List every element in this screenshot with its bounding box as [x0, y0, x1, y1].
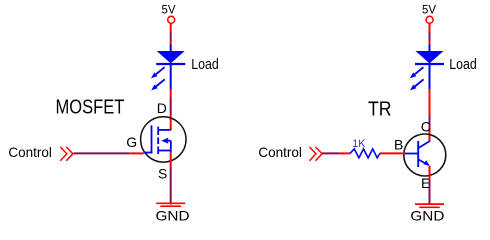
wire: net Control to gate (left, maroon)	[74, 152, 130, 154]
node: Control input chevron (right)	[310, 147, 323, 161]
LED D2 Load (right): triangle	[416, 51, 444, 63]
MOSFET Q1: channel segment middle	[157, 137, 159, 144]
MOSFET Q1: drain pin (red)	[170, 115, 172, 131]
svg-text:5V: 5V	[422, 2, 436, 16]
MOSFET Q1: channel segment bottom	[157, 146, 159, 154]
LED D2 Load (right): cathode bar	[415, 63, 444, 65]
MOSFET Q1: gate bar	[151, 125, 153, 153]
transistor Q2: emitter lead diagonal with arrow	[419, 160, 431, 167]
wire: net LED to drain (left, maroon)	[170, 98, 172, 115]
svg-text:GND: GND	[156, 207, 190, 222]
ground (left): bar 2	[161, 205, 181, 207]
LED D2 Load (right): emission arrow 2	[410, 79, 424, 90]
MOSFET Q1: source/body vertical	[170, 141, 172, 153]
svg-text:D: D	[157, 100, 167, 116]
svg-text:Load: Load	[449, 56, 477, 73]
transistor Q2: base bar	[417, 141, 419, 167]
transistor Q2: collector lead diagonal	[419, 141, 430, 148]
svg-text:MOSFET: MOSFET	[56, 96, 125, 118]
resistor R1: left pin (red)	[340, 152, 351, 154]
svg-text:TR: TR	[368, 99, 392, 121]
MOSFET Q1: body lead with arrow	[161, 138, 171, 144]
wire: net 5V to LED anode (left, maroon)	[170, 33, 172, 42]
svg-text:5V: 5V	[162, 2, 176, 16]
svg-text:1K: 1K	[352, 138, 366, 150]
svg-text:Control: Control	[8, 144, 52, 160]
LED D2 Load (right): emission arrow 1	[410, 67, 424, 78]
svg-text:Control: Control	[258, 144, 302, 160]
LED D1 Load (left): triangle	[157, 51, 185, 63]
power 5V (right) terminal circle	[426, 16, 433, 23]
MOSFET Q1: gate lead	[144, 152, 153, 154]
LED D1 Load (left): cathode bar	[156, 63, 185, 65]
wire: net Control to resistor (right, maroon)	[322, 152, 339, 154]
transistor Q2: base lead	[405, 153, 419, 155]
LED D1 Load (left): emission arrow 1	[151, 67, 165, 78]
MOSFET Q1: body circle	[141, 117, 186, 162]
MOSFET Q1: source pin (red)	[170, 153, 172, 167]
ground (right): bar 1	[415, 203, 444, 205]
ground (left): bar 1	[156, 202, 185, 204]
svg-text:C: C	[421, 118, 431, 134]
LED D2 Load (right): cathode lead	[429, 64, 431, 89]
wire: LED cathode pin (right, red)	[429, 89, 431, 115]
wire: LED anode pin (left, red)	[170, 41, 172, 45]
transistor Q2: collector pin (red)	[429, 130, 431, 141]
LED D1 Load (left): anode lead	[170, 45, 172, 53]
svg-text:B: B	[394, 136, 403, 152]
power 5V (left) terminal circle	[168, 16, 175, 23]
MOSFET Q1: channel segment top	[157, 127, 159, 135]
MOSFET Q1: gate pin (red)	[130, 152, 144, 154]
wire: net LED to collector (right, maroon)	[429, 115, 431, 130]
wire: net 5V to LED anode (right, maroon)	[429, 33, 431, 42]
wire: net source to GND (left, maroon)	[170, 167, 172, 205]
wire: LED cathode pin (left, red)	[170, 89, 172, 98]
transistor Q2: body circle	[404, 134, 446, 176]
transistor Q2: emitter pin (red)	[429, 166, 431, 180]
LED D2 Load (right): anode lead	[429, 45, 431, 53]
wire: LED anode pin (right, red)	[429, 41, 431, 45]
svg-text:Load: Load	[191, 56, 219, 73]
resistor R1 1K: zigzag body	[350, 149, 380, 158]
wire: net emitter to GND (right, maroon)	[429, 180, 431, 205]
MOSFET Q1: source lead	[158, 150, 171, 152]
LED D1 Load (left): emission arrow 2	[151, 79, 165, 90]
wire: 5V pin red stem (left)	[170, 23, 172, 32]
wire: 5V pin red stem (right)	[429, 23, 431, 32]
svg-text:GND: GND	[410, 208, 444, 223]
svg-text:S: S	[158, 166, 167, 182]
svg-text:G: G	[126, 134, 137, 150]
ground (right): bar 2	[419, 206, 439, 208]
node: Control input chevron (left)	[60, 147, 73, 161]
resistor R1: right pin to base (red)	[380, 152, 405, 154]
MOSFET Q1: drain lead	[158, 129, 171, 131]
LED D1 Load (left): cathode lead	[170, 64, 172, 89]
